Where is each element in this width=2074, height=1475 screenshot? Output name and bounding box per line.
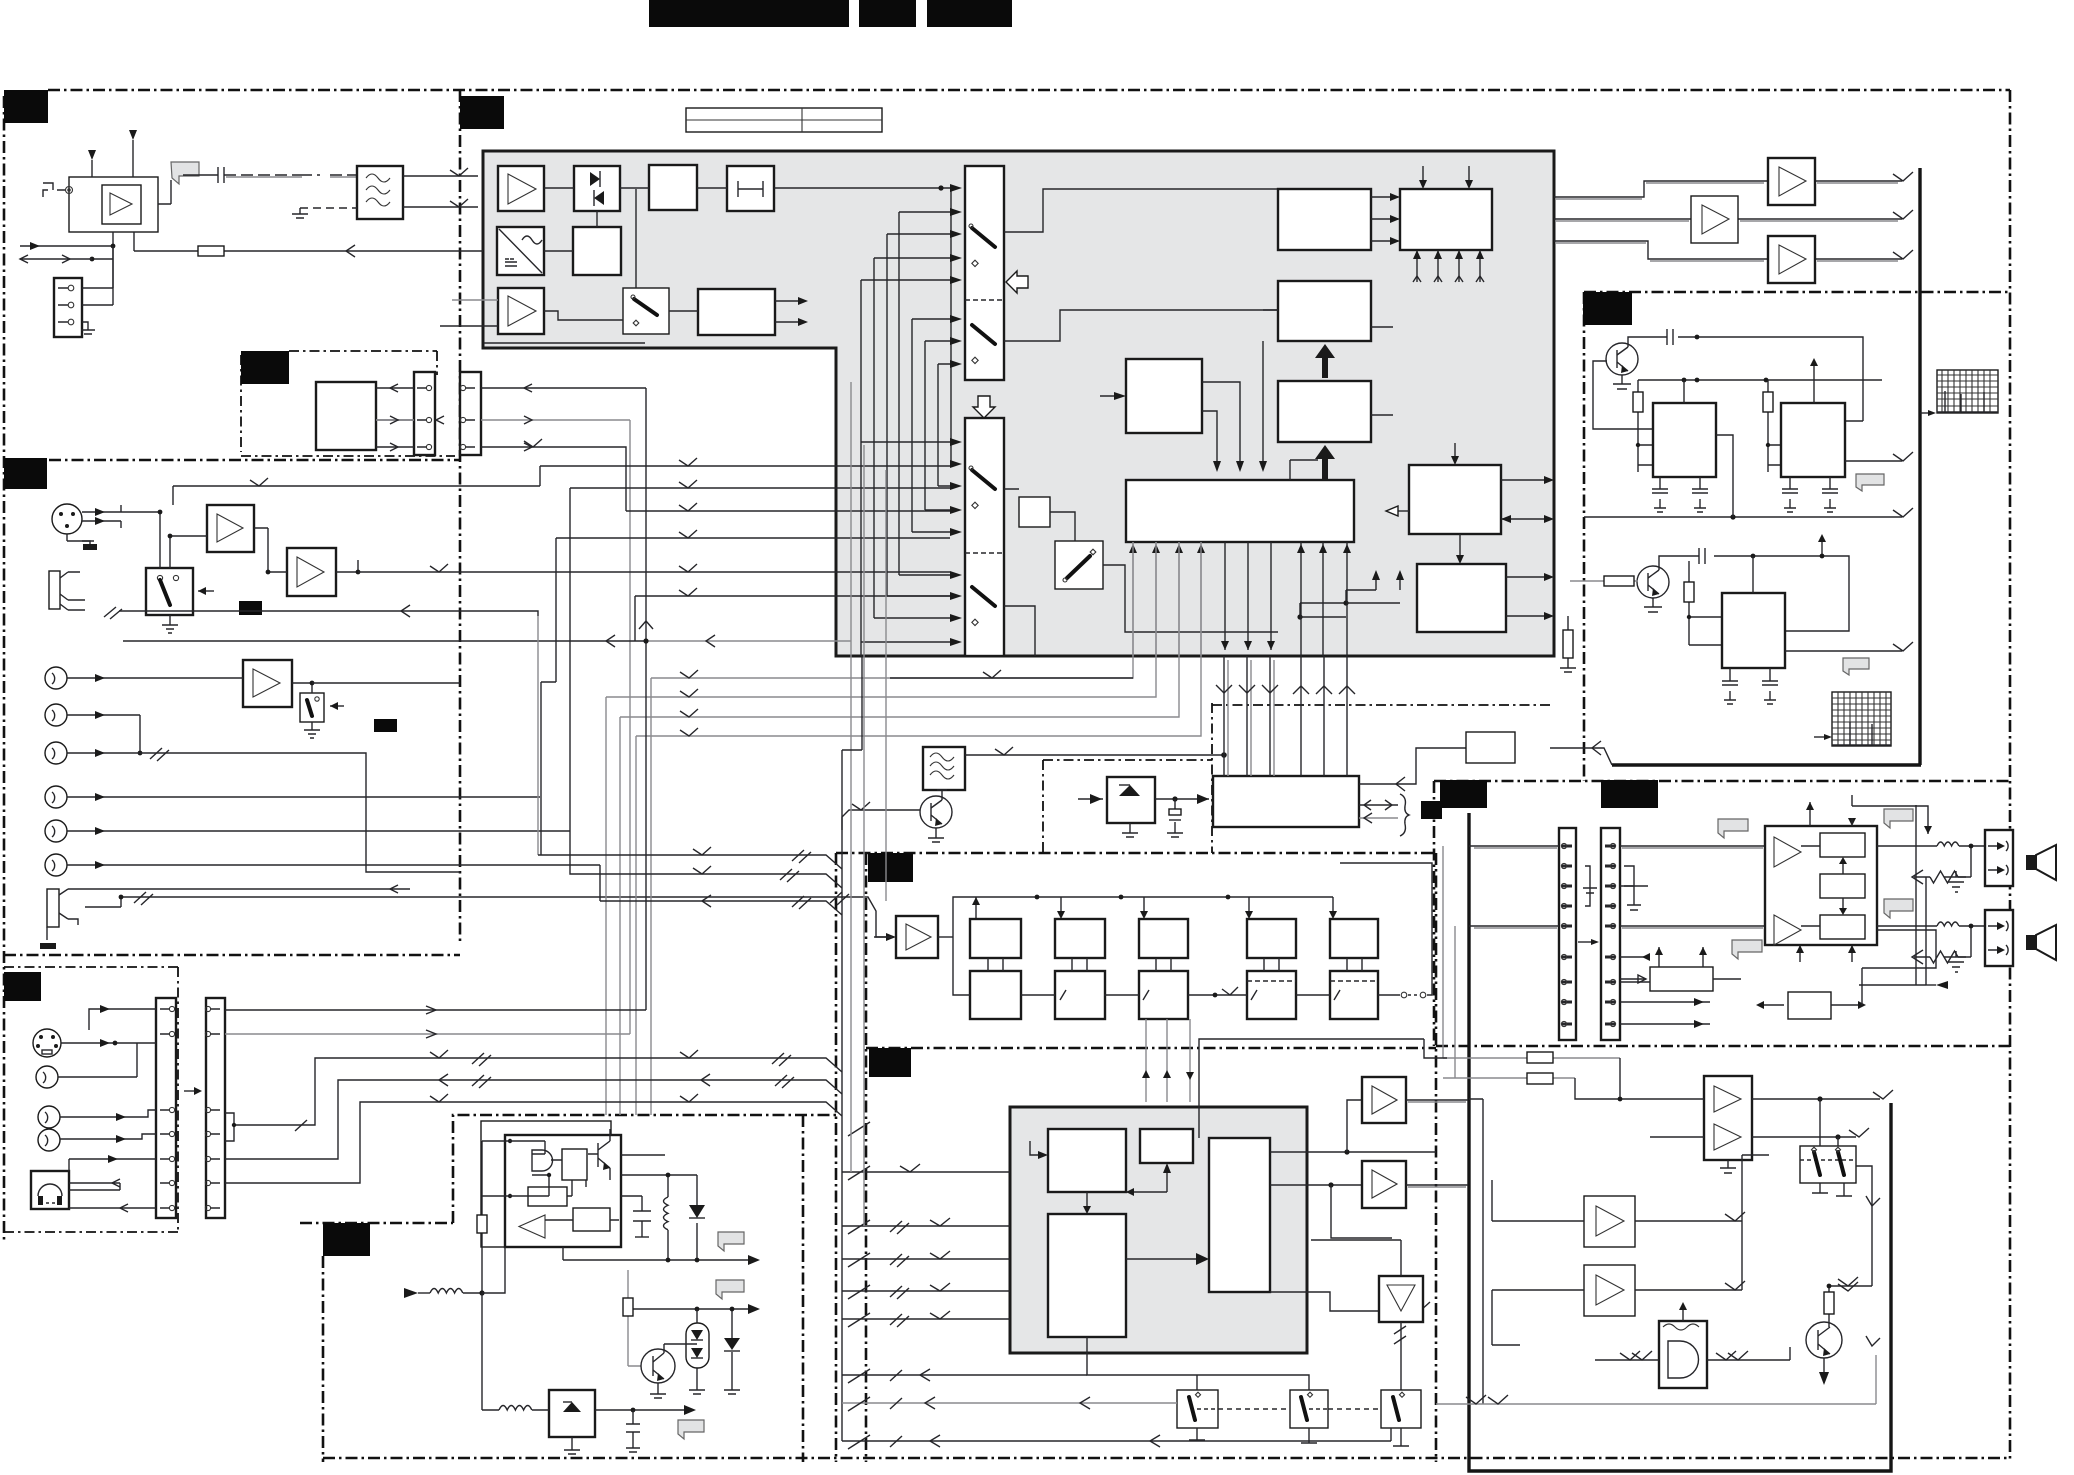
wire d2 out2 resistor bbox=[1506, 612, 1576, 672]
switch S4 double bbox=[1800, 1146, 1856, 1183]
node tape strip B bbox=[460, 372, 481, 455]
resistor R1 bbox=[1633, 380, 1653, 472]
inductor L1 bbox=[1937, 842, 1959, 846]
wire coax to filter bbox=[224, 174, 357, 176]
wire feedback R resistor bbox=[1912, 924, 1973, 964]
op-amp U1 fm front amp bbox=[498, 166, 544, 211]
switch S5 bbox=[1177, 1390, 1218, 1428]
wire e2 up arrow bbox=[1126, 1163, 1171, 1196]
op-amp U6 power L bbox=[1774, 837, 1801, 867]
node chevron R bbox=[1893, 250, 1913, 259]
wire left rail down bbox=[482, 1247, 505, 1410]
wire amp2 to S1 bbox=[544, 311, 623, 320]
node block C4 mixer bbox=[1126, 359, 1202, 433]
wire c3 right input bbox=[1371, 326, 1393, 328]
node power amp block bbox=[1765, 826, 1877, 945]
wire long line b bbox=[225, 1074, 842, 1159]
wire strip line 1 arrow bbox=[426, 1006, 436, 1014]
wire x3 top pin bbox=[1752, 556, 1754, 593]
node gnd connector bbox=[81, 330, 95, 334]
node chevron x3 out bbox=[1893, 642, 1913, 651]
wire osc top bus bbox=[1638, 379, 1882, 381]
wire ic left pins bbox=[482, 1141, 528, 1196]
node block pwm bbox=[562, 1149, 587, 1180]
wire staircase v7 bbox=[937, 364, 939, 486]
inductor L5 bbox=[482, 1406, 549, 1411]
wire tape bus out bbox=[481, 384, 646, 1034]
wire feedback L resistor bbox=[1912, 844, 1973, 884]
wire right bus bottom bbox=[1550, 741, 1921, 765]
wire left vertical feeds bbox=[1469, 1099, 1483, 1404]
node waveform grid 2 bbox=[1832, 692, 1891, 746]
node block S-meter out bbox=[698, 289, 808, 335]
node strip Q1 left bbox=[156, 998, 176, 1218]
node speaker terminal L bbox=[1985, 830, 2013, 886]
wire eq chain bottom links bbox=[953, 937, 1340, 1000]
wire arrow into grid1 bbox=[1920, 410, 1936, 416]
wire dsp gray returns bbox=[606, 542, 1201, 1115]
wire deck feed 4 bbox=[842, 1283, 1010, 1299]
wire audio out L bbox=[1554, 181, 1902, 197]
node callout flag 2 bbox=[1843, 658, 1869, 675]
switch S1 band select bbox=[623, 288, 669, 334]
wire eq in arrow bbox=[874, 933, 896, 941]
node jack 1 bbox=[49, 571, 85, 610]
node gate antenna bbox=[1679, 1302, 1687, 1321]
diode D2 bbox=[689, 1175, 705, 1260]
wire muting top arrows bbox=[1655, 947, 1707, 967]
capacitor C11 bbox=[218, 167, 224, 183]
wire q2 emitter gnd bbox=[1644, 598, 1662, 612]
wire main vertical divider front/tuner bbox=[459, 90, 462, 943]
wire outer left border bbox=[3, 96, 6, 1240]
wire speaker feed L shadow bbox=[1474, 847, 1763, 849]
node callout power1 bbox=[1718, 819, 1748, 838]
node mic xlr bbox=[52, 504, 82, 534]
wire diode to IF1 bbox=[620, 187, 649, 189]
wire speaker feed L bbox=[1469, 845, 1766, 847]
wire mic section top bbox=[4, 459, 460, 462]
op-amp U17 line amp bbox=[243, 660, 292, 707]
node regulator block 2 bbox=[1107, 777, 1155, 837]
node small label sw1 bbox=[239, 601, 262, 615]
wire q1 collector cap line bbox=[1628, 337, 1863, 421]
op-amp U2 am amp bbox=[498, 288, 544, 334]
wire left edge arrows bbox=[20, 242, 92, 263]
wire tape verticals extended bbox=[225, 660, 646, 1010]
wire staircase v2 bbox=[873, 258, 875, 618]
node bold arrow up 2 bbox=[1315, 445, 1335, 479]
node callout power4 bbox=[1732, 940, 1762, 959]
node label F psu section bbox=[323, 1223, 370, 1256]
wire d1 to d2 bbox=[1456, 534, 1464, 564]
wire s4 feeds bbox=[1820, 1099, 1872, 1286]
wire s7 gnd bbox=[1393, 1428, 1409, 1446]
wire center feed bus vertical bbox=[841, 830, 843, 1441]
wire protector in-out bbox=[1713, 930, 1936, 1009]
node callout psu2 bbox=[716, 1280, 744, 1299]
wire s8 arrow bbox=[198, 587, 214, 595]
node label E headphone section bbox=[4, 972, 41, 1001]
node gnd R bbox=[1944, 951, 1966, 972]
transistor Q1 bbox=[1606, 343, 1638, 375]
wire long line a bbox=[225, 1050, 842, 1141]
node label A antenna section bbox=[4, 90, 48, 123]
node block ceramic filter H bbox=[727, 166, 774, 211]
node rca jack r5 bbox=[45, 820, 67, 842]
wire amp1 to diode bbox=[544, 187, 574, 189]
op-amp U10 eq input bbox=[896, 916, 938, 958]
wire amp bottom pins bbox=[1796, 945, 1856, 962]
op-amp U11 deck L bbox=[1362, 1077, 1406, 1123]
node label I amp section left bbox=[1440, 780, 1487, 808]
node supply arrow X2 bbox=[1810, 358, 1818, 380]
node label K osc section bbox=[1583, 292, 1632, 325]
wire right bus vertical bbox=[1918, 168, 1921, 765]
wire deck feed 5 bbox=[842, 1311, 1010, 1327]
wire audio out R shadow bbox=[1556, 243, 1898, 261]
node label G eq section bbox=[868, 853, 913, 882]
wire reg out bbox=[1155, 794, 1209, 804]
wire connector taps bbox=[82, 246, 113, 330]
wire audio out R bbox=[1554, 241, 1902, 259]
wire d1 out right bbox=[1501, 476, 1554, 484]
wire staircase v6 bbox=[924, 341, 926, 510]
node mic gnd bbox=[67, 534, 97, 550]
wire q2 collector cap bbox=[1659, 556, 1849, 631]
op-amp U5 line out R bbox=[1768, 236, 1815, 283]
node down amp U13 bbox=[1379, 1276, 1423, 1322]
wire osc section border bbox=[1584, 292, 2010, 781]
op-amp U16 mic amp2 bbox=[287, 548, 336, 596]
wire e3 outs bbox=[1270, 1100, 1436, 1238]
wire bottom border bbox=[323, 1457, 2010, 1460]
node junction bbox=[1751, 554, 1756, 559]
node chevron L bbox=[1893, 172, 1913, 181]
node strip Q2 right bbox=[205, 998, 225, 1218]
wire filter to switchA bbox=[774, 187, 951, 189]
wire audio out L shadow bbox=[1556, 183, 1898, 199]
wire amp internal R bbox=[1801, 925, 1820, 927]
node arrowheads into B bbox=[950, 438, 962, 646]
wire upper trio b bbox=[570, 831, 842, 888]
wire bottom long line bbox=[842, 1428, 1391, 1447]
node connector strip P1 bbox=[1559, 828, 1576, 1040]
node label B tuner section bbox=[460, 96, 504, 129]
wire am loop line bbox=[484, 342, 645, 344]
node block C3 bbox=[1278, 281, 1371, 341]
node deck control gray block bbox=[1010, 1107, 1307, 1353]
wire x1 top pin bbox=[1683, 380, 1685, 403]
wire sysctl bus lines bbox=[1216, 656, 1355, 776]
wire strip line 2 bbox=[225, 1030, 630, 1038]
node block E4 motor drive bbox=[1048, 1214, 1126, 1337]
wire eq-deck section left border bbox=[865, 853, 868, 1462]
wire q1 base route bbox=[1593, 361, 1653, 429]
node supply arrow x3 bbox=[1818, 534, 1826, 558]
wire staircase v1 bbox=[860, 280, 862, 656]
wire bottom return line bbox=[1436, 1355, 1876, 1404]
wire gate in chevrons bbox=[1595, 1351, 1790, 1360]
node dual diode pack bbox=[686, 1309, 709, 1390]
wire q5 net bbox=[1790, 1196, 1880, 1360]
node connector strip P2 bbox=[1601, 828, 1620, 1040]
wire muting in bbox=[1620, 975, 1646, 983]
op-amp U15 mic amp1 bbox=[207, 505, 254, 552]
node block E2 small bbox=[1140, 1129, 1193, 1163]
wire mid horizontal divider bbox=[4, 954, 460, 957]
inductor L4 input bbox=[404, 1288, 485, 1298]
wire staircase v3 bbox=[886, 234, 888, 596]
node callout flag 1 bbox=[1856, 474, 1884, 491]
wire rca3 slashes bbox=[67, 748, 460, 872]
node junction dots ant bbox=[90, 244, 116, 262]
wire c1-c2 arrows bbox=[1371, 193, 1400, 245]
node eq band2 top bbox=[1055, 919, 1105, 958]
wire headphone sub-box bbox=[4, 967, 178, 1232]
transistor Q4 bbox=[641, 1344, 697, 1383]
wire x2 top pin bbox=[1813, 380, 1815, 403]
wire psu section border bbox=[300, 1115, 836, 1462]
node label J amp section right bbox=[1601, 780, 1658, 808]
node title bar 1 bbox=[649, 0, 849, 27]
node eq band5 bottom bbox=[1330, 971, 1378, 1019]
switch S8 mic bbox=[146, 568, 193, 615]
wire IF1 to filter bbox=[697, 187, 727, 189]
node eq band1 top bbox=[970, 919, 1021, 958]
wire diode bottom to AGC bbox=[596, 211, 598, 227]
node rca jack r7 bbox=[36, 1066, 58, 1088]
speaker SP1 bbox=[2026, 845, 2056, 880]
wire audio out C shadow bbox=[1556, 220, 1898, 222]
node block C2 output buffer bbox=[1400, 189, 1492, 250]
wire x2 out bbox=[1845, 460, 1902, 462]
node title bar 3 bbox=[927, 0, 1012, 27]
wire eq out switch gap bbox=[1199, 863, 1447, 1138]
wire eq band4 neck bbox=[1264, 958, 1279, 971]
node rca jack r6 bbox=[45, 854, 67, 876]
wire d1 bidir right bbox=[1501, 515, 1554, 523]
op-amp U9 aux R bbox=[1584, 1265, 1635, 1316]
node block D2 bbox=[1417, 564, 1506, 632]
wire psu out2 bbox=[628, 1304, 760, 1314]
node selector switch IC B bbox=[965, 418, 1004, 656]
node filter block pll bbox=[923, 747, 965, 790]
node rca jack r8 bbox=[38, 1106, 60, 1128]
node dual amp block bbox=[1704, 1076, 1752, 1160]
wire sysctl gray out bbox=[1359, 813, 1398, 823]
capacitor C12 bbox=[1167, 799, 1183, 837]
wire rca2 bbox=[67, 711, 142, 755]
node tape block bbox=[316, 382, 376, 450]
capacitor C10 bbox=[626, 1410, 640, 1452]
wire stubs into switch A bbox=[861, 212, 950, 364]
wire amp section bottom border bbox=[1436, 1045, 2010, 1048]
node block X1 oscillator bbox=[1653, 403, 1716, 477]
wire rca78 wiring bbox=[60, 1110, 156, 1143]
capacitor C7 bbox=[1722, 668, 1738, 704]
node eq band3 bottom bbox=[1139, 971, 1188, 1019]
wire dac to agc bbox=[544, 250, 573, 252]
node callout power2 bbox=[1884, 809, 1913, 828]
node headphone jack bbox=[31, 1171, 69, 1209]
node spec table top bbox=[686, 108, 882, 132]
node tape strip A bbox=[414, 372, 435, 455]
wire amp to connector bbox=[92, 232, 113, 305]
wire deck feed 3 bbox=[842, 1251, 1010, 1267]
node rca jack r3 bbox=[45, 742, 67, 764]
switch S2 small selector bbox=[1055, 541, 1103, 589]
wire amp top supply arrows bbox=[1806, 795, 1932, 834]
node block arrow left cursor bbox=[1006, 271, 1028, 293]
node block muting bbox=[1650, 967, 1713, 991]
wire amp section top border bbox=[1434, 781, 2010, 1046]
wire strip out lines bbox=[1620, 886, 1710, 1028]
wire stubs into switch B bbox=[861, 442, 951, 642]
wire dsp to c5 vertical bbox=[1290, 460, 1318, 480]
wire coax shadow bbox=[226, 176, 356, 178]
node gnd d3 bbox=[724, 1390, 740, 1394]
node callout ant bbox=[171, 162, 199, 184]
wire mic pair bbox=[82, 505, 121, 528]
node block system control bbox=[1213, 776, 1359, 827]
wire filter out1 bbox=[403, 168, 478, 176]
node waveform grid 1 bbox=[1937, 370, 1998, 413]
resistor R6 bbox=[477, 1141, 487, 1293]
resistor R7 gray bbox=[623, 1270, 641, 1366]
node eq band4 bottom bbox=[1247, 971, 1296, 1019]
wire return line lower bbox=[123, 621, 851, 647]
wire border crossing hooks bbox=[848, 1122, 870, 1449]
capacitor C5 bbox=[1822, 477, 1838, 512]
wire rca5 long bbox=[67, 827, 570, 835]
wire s5 gnd bbox=[1189, 1428, 1205, 1440]
node din connector bbox=[33, 1029, 61, 1057]
wire mic routing bbox=[121, 510, 360, 575]
node chevron C bbox=[1893, 210, 1913, 219]
speaker SP2 bbox=[2026, 925, 2056, 960]
node q5 emitter arrow bbox=[1819, 1358, 1829, 1385]
wire arrow into grid2 bbox=[1814, 734, 1832, 740]
node block protector bbox=[1788, 992, 1831, 1019]
op-amp U12 deck R bbox=[1362, 1161, 1406, 1208]
wire reg in arrow bbox=[1078, 794, 1103, 804]
node arrowheads into A bbox=[950, 184, 962, 368]
node small label sw2 bbox=[374, 719, 397, 732]
node title bar 2 bbox=[859, 0, 916, 27]
node regulator block bbox=[549, 1390, 595, 1437]
transistor Q5 bbox=[1806, 1322, 1842, 1358]
transistor Q6 pll bbox=[920, 790, 952, 828]
wire rca6 long bbox=[67, 861, 600, 869]
node block bias2 bbox=[1820, 874, 1865, 898]
node block bias3 bbox=[1820, 915, 1865, 939]
op-amp U3 line out L bbox=[1768, 158, 1815, 205]
diode D1 detector pair bbox=[574, 166, 620, 211]
node block X3 oscillator bbox=[1722, 593, 1785, 668]
node block X2 oscillator bbox=[1781, 403, 1845, 477]
wire rca4 long bbox=[67, 793, 540, 801]
wire deck feed 2 bbox=[842, 1218, 1010, 1234]
node callout psu3 bbox=[678, 1420, 704, 1439]
transistor Q3 internal bbox=[588, 1129, 610, 1180]
node flyback ic box bbox=[505, 1135, 621, 1247]
node dual amp gnd bbox=[1720, 1160, 1736, 1173]
wire filter out2 bbox=[403, 199, 478, 207]
wire deck feed 7 bbox=[842, 1397, 1177, 1409]
wire din wiring bbox=[58, 1005, 156, 1077]
wire dsp bottom up pins bbox=[1297, 542, 1351, 656]
node junction dots bbox=[1682, 378, 1769, 383]
wire ic internals bbox=[522, 1141, 619, 1220]
node callout psu1 bbox=[718, 1232, 744, 1251]
wire filter out to bus bbox=[965, 747, 1227, 758]
wire q4 emitter gnd bbox=[650, 1383, 666, 1398]
wire deck bottom wiring bbox=[1087, 1337, 1309, 1390]
wire c2 top arrows bbox=[1419, 166, 1473, 189]
wire filter gnd dash bbox=[292, 208, 357, 218]
wire regulator out bbox=[595, 1405, 696, 1415]
node rca jack r2 bbox=[45, 704, 67, 726]
node s8 gnd bbox=[162, 615, 178, 633]
wire ant amp out bbox=[158, 175, 218, 204]
wire upper trio a bbox=[538, 797, 842, 869]
wire deck amps out thick bbox=[1406, 1100, 1468, 1187]
node eq band3 top bbox=[1139, 919, 1188, 958]
capacitor C4 bbox=[1782, 477, 1798, 512]
node gnd L bbox=[1944, 871, 1966, 892]
node callout power3 bbox=[1884, 899, 1913, 918]
wire tape links bbox=[376, 384, 444, 451]
wire audio out C bbox=[1554, 218, 1902, 220]
node plug bracket bbox=[43, 183, 65, 197]
wire speaker feed R bbox=[1469, 925, 1766, 927]
wire eq section bottom bbox=[866, 1047, 1436, 1050]
node flyback outer box bbox=[481, 1121, 611, 1247]
wire deck feed 6 bbox=[842, 1369, 1087, 1381]
node bold arrow up 1 bbox=[1315, 344, 1335, 378]
wire long line c bbox=[225, 1094, 842, 1183]
wire c5 right input bbox=[1371, 414, 1393, 416]
node arrow between strips bbox=[184, 1087, 202, 1095]
fuse F2 bbox=[1443, 1073, 1575, 1084]
transistor Q2 bbox=[1637, 566, 1669, 598]
node arrow between strips bbox=[1578, 939, 1599, 945]
node junction dot bbox=[938, 185, 943, 190]
node junction dots eq bus bbox=[1035, 895, 1231, 900]
wire power feedback net bbox=[1859, 805, 1948, 989]
node speaker terminal R bbox=[1985, 910, 2013, 966]
capacitor C8 bbox=[1762, 668, 1778, 704]
op-amp U7 power R bbox=[1774, 915, 1801, 945]
wire S1 to s-meter bbox=[669, 310, 698, 312]
wire mid line to bus bbox=[1584, 516, 1902, 518]
wire switchB out bbox=[1004, 489, 1278, 656]
capacitor C9 bbox=[621, 1196, 651, 1237]
op-amp U14 error amp bbox=[519, 1215, 545, 1238]
node block display conn bbox=[1466, 732, 1515, 763]
wire e3 bottom out bbox=[1270, 1292, 1430, 1311]
node selector switch IC A bbox=[965, 166, 1004, 380]
node jack 2 bbox=[40, 889, 85, 949]
wire outer right border bbox=[2009, 90, 2012, 1461]
wire deck feed 1 bbox=[842, 1164, 1010, 1172]
wire upper trio c bbox=[600, 865, 842, 915]
wire dsp bottom gray pins bbox=[1129, 542, 1205, 656]
capacitor C3 bbox=[1692, 477, 1708, 512]
resistor R5 bbox=[1824, 1286, 1834, 1327]
wire d1 left white arrow bbox=[1386, 506, 1409, 516]
